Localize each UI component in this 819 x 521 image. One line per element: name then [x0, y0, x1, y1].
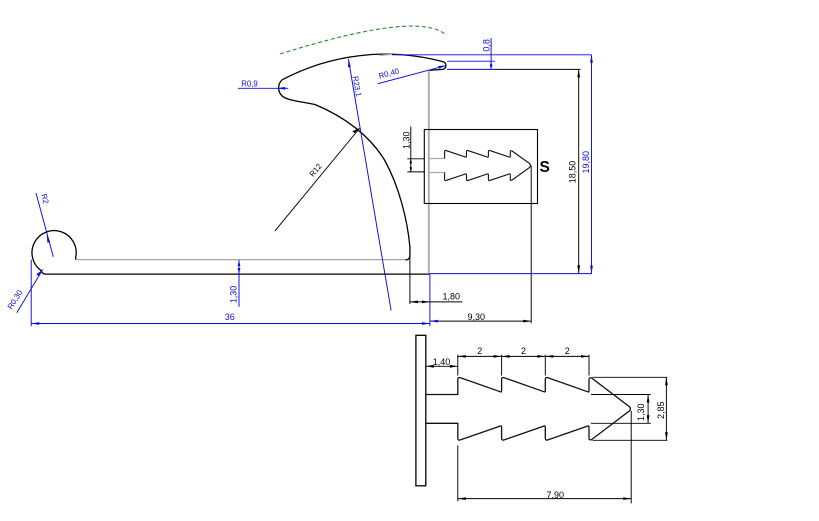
dim R12: leader, arrow, text — [275, 128, 360, 231]
dim 0,8: dimension line and arrows — [490, 38, 492, 69]
main profile: inner corner fillet, vertical arm, R12 inner arc, R0.9 hook tip, R23.1 outer arc, R0.40 right tip, hook underside — [279, 54, 446, 260]
dim R0,30: leader, arrow, text — [17, 270, 43, 313]
detail box S around fir-tree — [424, 130, 537, 204]
dim 1,40: dimension line, arrows, text — [426, 365, 458, 367]
dim 19,80: dimension line, arrows — [591, 55, 593, 274]
svg-text:2,85: 2,85 — [656, 401, 666, 419]
gray panel edge: base top line — [76, 259, 405, 261]
dim 1,30 (base thickness): dimension line, arrows — [238, 260, 240, 307]
dim 2 chain: dimension line — [458, 355, 589, 357]
dim 1,30 (box): extension stubs and dimension line — [407, 127, 424, 172]
dim 1,30 (detail): extension lines, dimension line, arrows, text — [591, 395, 651, 424]
dim 18,50: top extension line (black) — [495, 68, 581, 70]
dim 1,80: dimension line with tail — [410, 301, 462, 303]
gray fir-tree neck stubs — [430, 159, 445, 173]
svg-text:R0,9: R0,9 — [241, 79, 257, 88]
dim 18,50: dimension line, arrows — [578, 69, 580, 273]
gray panel edge: vertical line — [428, 70, 430, 273]
dim 19,80: bottom extension line (blue) — [430, 273, 593, 275]
svg-text:18,50: 18,50 — [568, 161, 578, 184]
dim 36: extension lines — [31, 260, 430, 327]
dim 7,90: dimension line, arrows, text — [458, 498, 631, 500]
wall bar — [416, 335, 426, 486]
svg-text:36: 36 — [225, 312, 235, 322]
main profile: base bottom edge, R0.30 fillet and R2 circular bulge — [32, 231, 429, 275]
dim 0,8: extension lines — [392, 55, 592, 70]
svg-text:1,30: 1,30 — [636, 403, 646, 421]
dim R2: leader, arrow, text — [36, 193, 53, 257]
dim R23,1: radial line, arrow, text — [348, 59, 391, 310]
green dashed reference arc — [280, 26, 446, 54]
svg-text:1,40: 1,40 — [433, 357, 451, 367]
fir-tree barb (main view) — [445, 150, 531, 180]
svg-text:19,80: 19,80 — [581, 151, 591, 174]
svg-text:2: 2 — [521, 346, 526, 356]
svg-text:1,30: 1,30 — [401, 131, 411, 149]
fir-tree barb (detail view) — [426, 378, 631, 441]
svg-text:9,30: 9,30 — [468, 312, 486, 322]
dim 1,80: extension line through base — [409, 256, 411, 304]
dim 2 chain: extension lines — [458, 355, 589, 376]
svg-text:1,30: 1,30 — [228, 286, 238, 304]
svg-text:0,8: 0,8 — [482, 39, 492, 52]
dim 36: dimension line — [31, 323, 430, 325]
gray segment on hook top edge — [380, 54, 393, 57]
svg-text:2: 2 — [565, 346, 570, 356]
dim R0,40: leader, arrow, text — [378, 65, 447, 83]
svg-text:1,80: 1,80 — [443, 292, 461, 302]
svg-text:2: 2 — [477, 346, 482, 356]
svg-text:7,90: 7,90 — [547, 490, 565, 500]
svg-text:S: S — [540, 159, 550, 176]
dim 7,90: extension lines — [458, 411, 631, 504]
dim 9,30: dimension line — [430, 320, 531, 322]
extension line from fir-tree apex down (for 9,30) — [530, 166, 532, 324]
dim R0,9: leader and text — [238, 87, 288, 89]
dim 2,85 (detail): extension lines, dimension line, arrows, text — [593, 377, 668, 440]
